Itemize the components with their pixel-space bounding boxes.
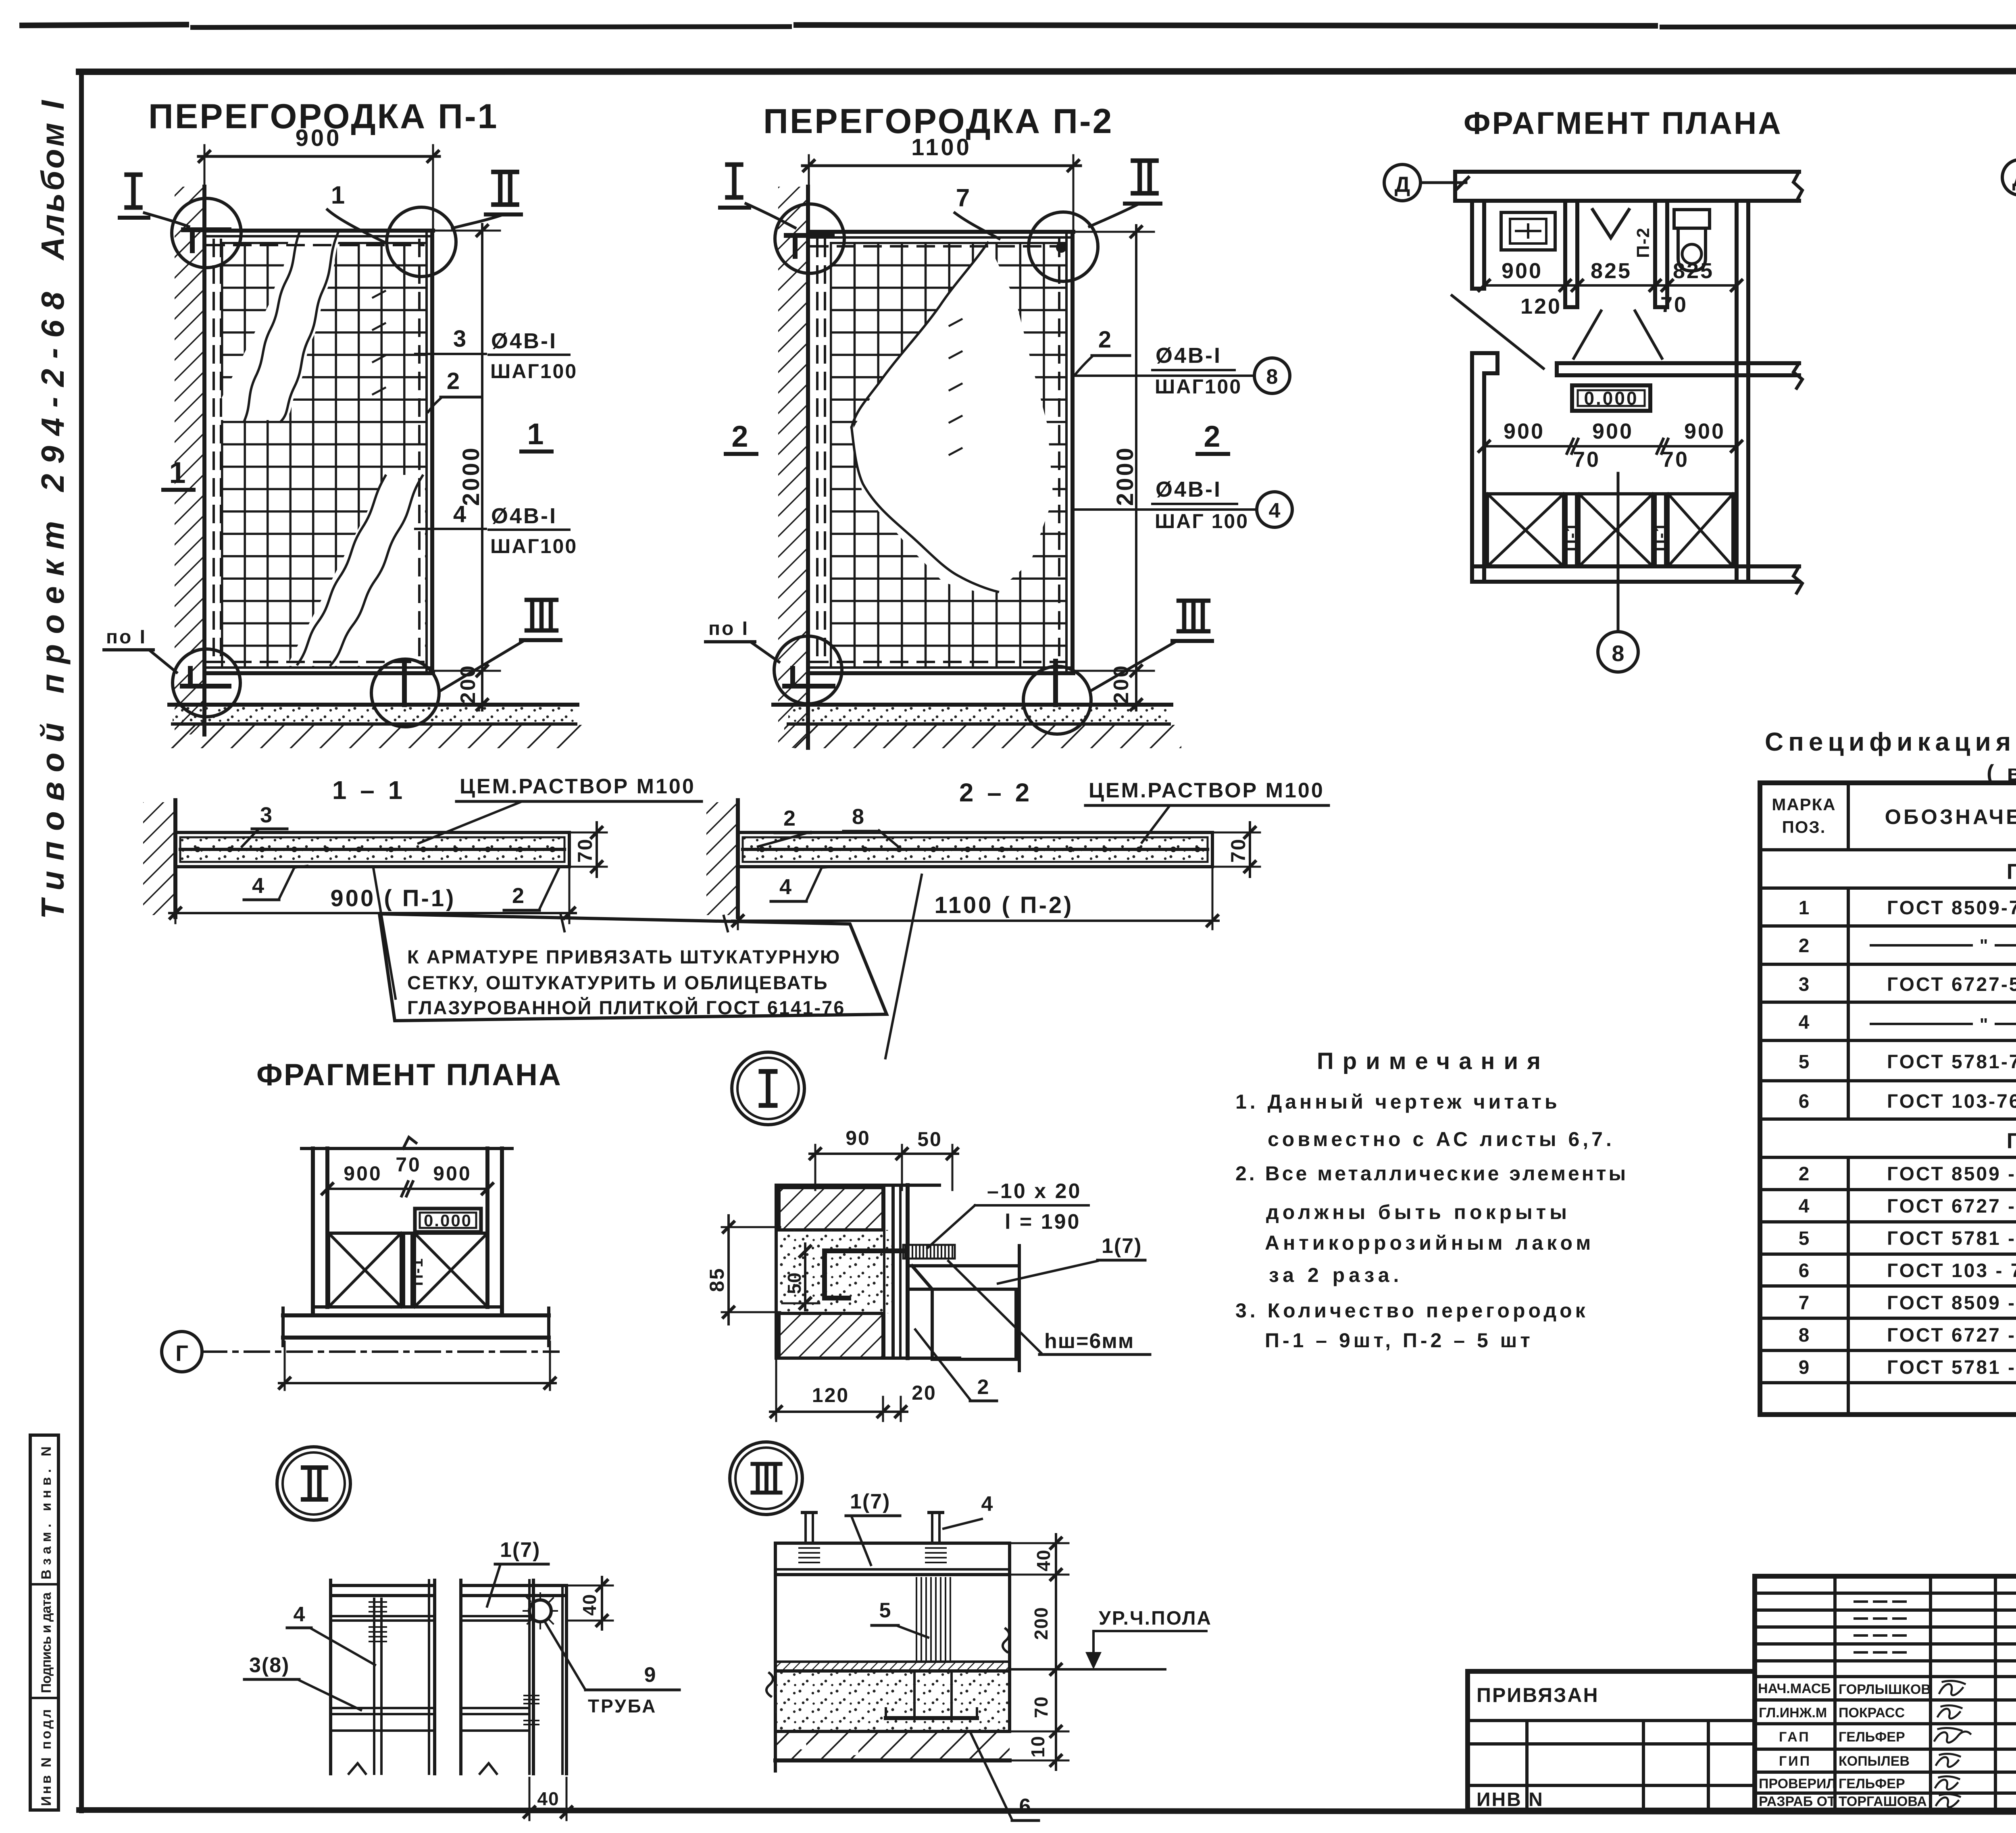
- section 2-2 dim 1100 (P-2): [732, 869, 1218, 929]
- svg-text:900: 900: [296, 125, 342, 151]
- svg-text:Ø4В-I: Ø4В-I: [1156, 343, 1222, 368]
- spec table headers: [1772, 795, 2016, 836]
- P-1 section mark III label: [441, 600, 560, 691]
- svg-text:Ø4В-I: Ø4В-I: [1156, 477, 1222, 501]
- detail I plate label -10x20 l=190: [927, 1180, 1089, 1248]
- P-1 anchor pin bottom: [402, 661, 407, 705]
- svg-text:П-1: П-1: [408, 1258, 426, 1286]
- detail III head circle: [730, 1442, 802, 1515]
- svg-text:1100 ( П-2): 1100 ( П-2): [935, 892, 1074, 918]
- svg-text:1: 1: [1799, 897, 1810, 919]
- svg-text:200: 200: [1031, 1606, 1052, 1640]
- partition P-1 elevation: [104, 97, 585, 748]
- svg-text:": ": [1980, 1015, 1988, 1034]
- detail I bottom dims 120 20: [770, 1361, 937, 1421]
- plan C inner line: [327, 1232, 487, 1235]
- P-1 section mark I label: [120, 175, 189, 227]
- svg-text:l = 190: l = 190: [1005, 1210, 1081, 1234]
- svg-text:ГОРЛЫШКОВ: ГОРЛЫШКОВ: [1839, 1682, 1931, 1697]
- section 2-2 slab: [738, 832, 1212, 867]
- P-2 rebar note with bubble 8: [1074, 343, 1290, 398]
- svg-text:2: 2: [1799, 935, 1810, 957]
- section 1-1 dim 70: [571, 822, 607, 877]
- svg-text:ШАГ100: ШАГ100: [490, 535, 577, 558]
- svg-text:КОПЫЛЕВ: КОПЫЛЕВ: [1839, 1754, 1910, 1769]
- P-1 dim 900 top: [204, 145, 206, 232]
- svg-text:ГОСТ 8509 - 72: ГОСТ 8509 - 72: [1887, 1292, 2016, 1314]
- detail I lower brick: [779, 1313, 883, 1358]
- svg-text:70: 70: [1227, 838, 1250, 863]
- detail II threaded rod: [373, 1599, 375, 1774]
- svg-text:2: 2: [731, 420, 748, 453]
- P-1 detail circle bottom-left: [173, 649, 240, 717]
- P-1 panel bottom edge: [204, 666, 433, 669]
- P-2 panel bottom edge: [808, 666, 1073, 669]
- svg-text:должны быть покрыты: должны быть покрыты: [1266, 1201, 1570, 1223]
- section 1-1 slab: [175, 832, 569, 867]
- svg-text:П-1 – 9шт, П-2 – 5 шт: П-1 – 9шт, П-2 – 5 шт: [1265, 1329, 1533, 1352]
- plan A partition wall 2 (P-2): [1655, 201, 1667, 307]
- svg-text:НАЧ.МАСБ: НАЧ.МАСБ: [1758, 1681, 1831, 1696]
- svg-text:": ": [1980, 936, 1988, 955]
- notes primechaniya: [1235, 1048, 1628, 1352]
- P-1 label 1 leader: [327, 181, 384, 242]
- P-1 big section mark 1 right: [521, 417, 552, 451]
- svg-text:2: 2: [512, 884, 524, 908]
- svg-text:1 – 1: 1 – 1: [332, 776, 406, 805]
- svg-text:1(7): 1(7): [1102, 1234, 1142, 1258]
- svg-text:1100: 1100: [911, 134, 972, 160]
- detail III partition striped band: [914, 1577, 954, 1662]
- detail III label 6: [971, 1733, 1039, 1821]
- svg-text:2: 2: [783, 806, 796, 830]
- svg-text:ГОСТ 5781 - 75: ГОСТ 5781 - 75: [1887, 1357, 2016, 1378]
- svg-text:hш=6мм: hш=6мм: [1044, 1329, 1134, 1353]
- svg-text:5: 5: [1799, 1228, 1810, 1249]
- P-1 section mark II label: [452, 172, 521, 228]
- svg-text:2: 2: [1799, 1163, 1810, 1185]
- P-1 floor line and ground: [169, 703, 577, 707]
- svg-text:3: 3: [1799, 974, 1810, 995]
- detail III bolt left: [799, 1513, 819, 1563]
- detail III right dim chain: [1012, 1534, 1068, 1770]
- svg-text:ГИП: ГИП: [1779, 1754, 1811, 1769]
- plan A door leaf: [1452, 295, 1543, 368]
- svg-text:4: 4: [779, 875, 791, 899]
- detail I anchor Z-bar: [825, 1251, 905, 1298]
- section 2-2 label 8: [843, 805, 899, 847]
- svg-text:90: 90: [846, 1127, 871, 1149]
- svg-text:7: 7: [1799, 1292, 1810, 1314]
- detail II dim 40 right: [569, 1577, 613, 1629]
- svg-text:ТОРГАШОВА: ТОРГАШОВА: [1839, 1794, 1927, 1809]
- plan A axis bubble D: [1384, 164, 1468, 201]
- detail III label 4: [943, 1492, 993, 1529]
- svg-text:85: 85: [706, 1267, 728, 1292]
- P-2 detail circle III bottom-right: [1023, 666, 1091, 734]
- section 2-2 wall hatch: [706, 802, 738, 915]
- svg-text:Ø4В-I: Ø4В-I: [491, 504, 557, 528]
- P-1 corner angle glyph bottom-left: [182, 668, 229, 686]
- svg-text:5: 5: [1799, 1051, 1810, 1073]
- svg-text:ФРАГМЕНТ ПЛАНА: ФРАГМЕНТ ПЛАНА: [1464, 105, 1783, 141]
- plan A cabin row: [1487, 494, 1733, 566]
- svg-text:2 – 2: 2 – 2: [959, 778, 1033, 807]
- title block signature scribbles: [1935, 1681, 1970, 1808]
- P-1 label 2 leader: [428, 368, 480, 412]
- plan C left wall: [313, 1148, 327, 1315]
- svg-text:совместно с АС листы 6,7.: совместно с АС листы 6,7.: [1268, 1128, 1615, 1151]
- P-2 hidden angle dashed lines: [816, 240, 818, 665]
- plan A bottom wall: [1474, 566, 1802, 593]
- plan fragment C title (bottom left): [162, 1058, 562, 1390]
- detail I label 2: [915, 1329, 997, 1401]
- svg-text:70: 70: [1660, 293, 1688, 317]
- plan A left wall lower with pilaster: [1472, 353, 1497, 582]
- left margin vertical text: project name: [35, 99, 71, 919]
- P-1 break tear band upper: [210, 232, 342, 420]
- section 2-2: [706, 778, 1329, 929]
- plan A level mark 0.000: [1572, 385, 1650, 411]
- svg-text:Антикоррозийным лаком: Антикоррозийным лаком: [1265, 1232, 1594, 1254]
- svg-text:825: 825: [1673, 259, 1714, 283]
- section 1-1: [143, 775, 702, 923]
- plan C bottom walls: [283, 1307, 549, 1346]
- P-1 rebar label 4 with note: [415, 501, 577, 558]
- plan C axis bubble G: [162, 1332, 558, 1372]
- section 1-1 label 3: [242, 803, 287, 847]
- svg-text:40: 40: [537, 1788, 559, 1809]
- svg-text:70: 70: [1573, 447, 1600, 472]
- scan artifact top edge line: [22, 25, 2016, 27]
- svg-text:ЦЕМ.РАСТВОР М100: ЦЕМ.РАСТВОР М100: [460, 775, 696, 798]
- svg-text:70: 70: [1031, 1696, 1052, 1718]
- svg-text:900 ( П-1): 900 ( П-1): [331, 885, 456, 911]
- svg-text:ГОСТ 8509-72: ГОСТ 8509-72: [1887, 897, 2016, 919]
- plan B axis bubble D: [2002, 160, 2016, 195]
- P-2 step tick marks: [950, 319, 962, 455]
- P-2 wall hatch: [778, 187, 808, 748]
- svg-text:ПРОВЕРИЛ: ПРОВЕРИЛ: [1759, 1776, 1836, 1791]
- plan A shower V icon: [1593, 210, 1629, 238]
- svg-text:8: 8: [852, 805, 864, 829]
- detail I panel box 3d: [907, 1246, 1019, 1371]
- svg-text:ГОСТ 5781-75: ГОСТ 5781-75: [1887, 1051, 2016, 1073]
- svg-text:900: 900: [1502, 259, 1543, 283]
- section 2-2 dim 70: [1214, 822, 1260, 877]
- detail II right post: [461, 1580, 566, 1774]
- svg-text:1(7): 1(7): [850, 1490, 890, 1513]
- note box plaster mesh: [373, 868, 922, 1058]
- svg-text:20: 20: [912, 1382, 937, 1404]
- svg-text:по I: по I: [708, 618, 749, 639]
- svg-text:3. Количество перегородок: 3. Количество перегородок: [1235, 1299, 1589, 1322]
- svg-text:40: 40: [1033, 1549, 1054, 1571]
- detail II left post: [331, 1580, 435, 1774]
- plan C dim 900 70 900: [322, 1153, 493, 1196]
- detail III floor hatch band: [775, 1662, 1010, 1671]
- svg-text:6: 6: [1019, 1795, 1031, 1818]
- svg-text:ИНВ N: ИНВ N: [1477, 1789, 1544, 1810]
- svg-text:0.000: 0.000: [1584, 388, 1638, 409]
- detail III label 1(7): [846, 1490, 900, 1565]
- section 2-2 label 2: [758, 806, 810, 847]
- svg-text:4: 4: [1269, 499, 1281, 522]
- svg-text:2: 2: [977, 1375, 989, 1399]
- svg-text:ШАГ 100: ШАГ 100: [1155, 510, 1249, 533]
- svg-text:900: 900: [433, 1162, 471, 1185]
- P-2 label 2 leader: [1075, 327, 1130, 375]
- svg-text:900: 900: [1684, 419, 1725, 443]
- P-1 panel top angle: [204, 229, 433, 233]
- svg-text:ГЕЛЬФЕР: ГЕЛЬФЕР: [1839, 1776, 1905, 1791]
- P-2 detail circle bottom-left: [774, 636, 842, 704]
- plan A door swing lines: [1574, 311, 1601, 358]
- P-2 mesh grid: [830, 242, 1066, 668]
- svg-text:4: 4: [981, 1492, 993, 1516]
- detail I label h weld: [948, 1261, 1150, 1354]
- partition P-2 elevation: [706, 102, 1292, 748]
- svg-text:ГОСТ 6727-53: ГОСТ 6727-53: [1887, 974, 2016, 995]
- svg-text:ПРИВЯЗАН: ПРИВЯЗАН: [1477, 1684, 1599, 1706]
- P-1 detail circle I top-left: [172, 198, 241, 268]
- svg-text:2. Все металлические элементы: 2. Все металлические элементы: [1235, 1162, 1628, 1185]
- svg-text:8: 8: [1799, 1325, 1810, 1346]
- detail I dim 50 inner: [782, 1244, 819, 1310]
- P-2 section mark II label: [1089, 161, 1160, 227]
- P-1 detail circle II top-right: [387, 207, 456, 277]
- specification table: [1760, 719, 2016, 1415]
- plan A top wall: [1455, 172, 1802, 201]
- svg-text:8: 8: [1266, 365, 1278, 389]
- detail II head circle: [277, 1447, 350, 1520]
- P-1 step tick marks: [373, 291, 385, 394]
- svg-text:ГАП: ГАП: [1779, 1729, 1810, 1745]
- section 1-1 wall hatch: [143, 802, 175, 915]
- svg-text:1: 1: [527, 417, 544, 451]
- section 1-1 label 4: [244, 866, 307, 900]
- detail II label 9 pipe: [545, 1622, 679, 1716]
- detail I finish layers: [884, 1185, 908, 1358]
- detail I left wall edge: [775, 1185, 778, 1358]
- plan A leader bubble 8: [1598, 473, 1638, 672]
- svg-text:3(8): 3(8): [249, 1654, 289, 1677]
- title block signature grid: [1755, 1576, 2016, 1810]
- svg-text:6: 6: [1799, 1091, 1810, 1112]
- svg-text:2: 2: [1204, 420, 1220, 453]
- svg-text:3: 3: [453, 326, 466, 352]
- svg-text:по I: по I: [106, 626, 147, 648]
- detail II dim 40 bottom: [524, 1778, 572, 1820]
- spec rows P-2: [1799, 1163, 2016, 1378]
- svg-text:ПОКРАСС: ПОКРАСС: [1839, 1705, 1905, 1721]
- plan A washbasin icon: [1501, 212, 1555, 250]
- svg-text:–10 x 20: –10 x 20: [987, 1180, 1081, 1203]
- plan A left wall upper: [1472, 201, 1484, 289]
- svg-text:ГЛАЗУРОВАННОЙ ПЛИТКОЙ ГОСТ 614: ГЛАЗУРОВАННОЙ ПЛИТКОЙ ГОСТ 6141-76: [407, 997, 845, 1018]
- svg-text:Г: Г: [175, 1340, 188, 1366]
- svg-text:МАРКА: МАРКА: [1772, 795, 1836, 814]
- svg-text:4: 4: [1799, 1196, 1810, 1217]
- svg-text:4: 4: [1799, 1012, 1810, 1033]
- plan fragment A (center top): [1384, 105, 1802, 672]
- plan fragment B (top right): [2002, 101, 2016, 571]
- svg-text:ГЛ.ИНЖ.М: ГЛ.ИНЖ.М: [1759, 1705, 1827, 1721]
- detail III foundation band: [775, 1731, 1010, 1760]
- plan C right wall: [487, 1148, 502, 1315]
- spec ditto marks P-1: [1871, 945, 2016, 1024]
- svg-text:2000: 2000: [1112, 446, 1138, 506]
- plan C level mark 0.000: [415, 1209, 481, 1232]
- svg-text:ГОСТ 6727 - 53: ГОСТ 6727 - 53: [1887, 1325, 2016, 1346]
- svg-text:1: 1: [169, 456, 185, 489]
- P-1 hidden angle dashed lines: [212, 240, 215, 665]
- detail III anchor tee: [886, 1671, 977, 1718]
- svg-text:ОБОЗНАЧЕНИЕ: ОБОЗНАЧЕНИЕ: [1885, 805, 2016, 829]
- svg-text:Подпись и дата: Подпись и дата: [39, 1592, 54, 1693]
- svg-text:Инв N подл: Инв N подл: [39, 1709, 54, 1806]
- svg-text:П - 2: П - 2: [2007, 1129, 2016, 1153]
- P-2 big section mark 2 right: [1198, 420, 1228, 454]
- svg-text:ШАГ100: ШАГ100: [1155, 375, 1242, 398]
- svg-text:4: 4: [294, 1603, 305, 1626]
- detail III break squiggles: [766, 1673, 773, 1696]
- svg-text:Д: Д: [1395, 173, 1410, 197]
- svg-text:ГОСТ 103-76: ГОСТ 103-76: [1887, 1091, 2016, 1112]
- P-2 label 7 leader: [955, 184, 999, 239]
- svg-text:2: 2: [1098, 327, 1111, 353]
- svg-text:Д: Д: [2012, 167, 2016, 191]
- detail I weld plate striped: [903, 1245, 955, 1259]
- P-2 detail circle I top-left: [775, 204, 844, 273]
- svg-text:6: 6: [1799, 1260, 1810, 1282]
- svg-text:К АРМАТУРЕ ПРИВЯЗАТЬ ШТУКАТУРН: К АРМАТУРЕ ПРИВЯЗАТЬ ШТУКАТУРНУЮ: [407, 946, 841, 967]
- P-1 detail circle III bottom: [371, 659, 439, 727]
- P-2 anchor pin bottom: [1053, 661, 1058, 705]
- title block signatures text: [1758, 1681, 1931, 1809]
- P-2 corner bolt dot: [1056, 242, 1066, 253]
- P-2 panel top angle: [808, 230, 1073, 234]
- svg-text:8: 8: [1612, 641, 1624, 666]
- P-1 mark po I: [104, 626, 177, 672]
- detail III floor level mark: [1011, 1608, 1212, 1669]
- P-1 wall hatch: [175, 187, 204, 734]
- svg-text:ГОСТ 8509 - 72: ГОСТ 8509 - 72: [1887, 1163, 2016, 1185]
- svg-text:5: 5: [879, 1599, 891, 1622]
- svg-text:70: 70: [574, 838, 596, 863]
- svg-text:0.000: 0.000: [424, 1211, 472, 1230]
- P-2 corner angle glyph bottom-left: [785, 668, 833, 686]
- P-1 mesh grid: [221, 242, 427, 668]
- svg-text:ГОСТ 103 - 76: ГОСТ 103 - 76: [1887, 1260, 2016, 1282]
- detail III bolt right: [926, 1513, 946, 1563]
- P-2 floor line and ground: [773, 703, 1171, 707]
- note box leaders: [373, 868, 396, 999]
- detail I wall top line: [776, 1184, 939, 1187]
- svg-text:7: 7: [956, 184, 970, 212]
- detail II label 4: [287, 1603, 375, 1665]
- svg-text:ГЕЛЬФЕР: ГЕЛЬФЕР: [1839, 1729, 1905, 1745]
- detail III label 5: [872, 1599, 928, 1637]
- svg-text:3: 3: [260, 803, 272, 827]
- detail I head circle: [732, 1052, 804, 1125]
- left margin stamp column: [30, 1435, 58, 1810]
- svg-text:Примечания: Примечания: [1317, 1048, 1549, 1074]
- svg-text:П-1: П-1: [1651, 522, 1670, 551]
- svg-text:50: 50: [784, 1272, 805, 1294]
- svg-text:900: 900: [1592, 419, 1633, 443]
- svg-text:70: 70: [396, 1153, 421, 1176]
- svg-text:ПОЗ.: ПОЗ.: [1782, 818, 1826, 836]
- svg-text:10: 10: [1027, 1735, 1048, 1758]
- svg-text:4: 4: [453, 501, 466, 527]
- P-2 break blank zone: [852, 243, 1053, 596]
- svg-text:УР.Ч.ПОЛА: УР.Ч.ПОЛА: [1099, 1608, 1212, 1629]
- svg-text:1. Данный чертеж читать: 1. Данный чертеж читать: [1235, 1090, 1560, 1113]
- svg-text:9: 9: [1799, 1357, 1810, 1378]
- svg-text:за 2 раза.: за 2 раза.: [1269, 1264, 1403, 1286]
- svg-text:ТРУБА: ТРУБА: [588, 1696, 657, 1716]
- plan A lower dim line 900x3: [1479, 419, 1742, 472]
- section 1-1 dim 900 (P-1): [169, 869, 576, 923]
- spec table grid: [1760, 783, 2016, 1415]
- P-1 panel right angle: [425, 231, 428, 672]
- section 2-2 mortar label: [1085, 779, 1329, 843]
- svg-text:1(7): 1(7): [500, 1538, 540, 1562]
- detail I label 1(7): [998, 1234, 1145, 1284]
- plan A right wall: [1737, 201, 1748, 582]
- plan A toilet icon: [1674, 210, 1710, 271]
- svg-text:2: 2: [447, 368, 460, 394]
- svg-text:1: 1: [331, 181, 345, 209]
- svg-text:П-1: П-1: [1562, 522, 1581, 551]
- svg-text:900: 900: [1504, 419, 1545, 443]
- P-2 mark po I: [706, 618, 779, 662]
- svg-text:ГОСТ 5781 - 75: ГОСТ 5781 - 75: [1887, 1228, 2016, 1249]
- detail I dim 85: [706, 1215, 780, 1324]
- P-1 corner angle glyph top-left: [183, 230, 229, 251]
- P-2 panel right angle: [1065, 232, 1068, 672]
- detail I drawing: [706, 1127, 1150, 1421]
- detail III underlayer speckle: [775, 1672, 1010, 1731]
- detail II label 1(7): [487, 1538, 548, 1606]
- svg-text:П - 1: П - 1: [2007, 859, 2016, 884]
- svg-text:9: 9: [644, 1663, 656, 1687]
- svg-text:4: 4: [252, 874, 264, 898]
- P-2 dim 1100 top: [808, 155, 810, 233]
- P-2 corner angle glyph top-left: [786, 235, 832, 256]
- svg-text:70: 70: [1662, 447, 1689, 472]
- P-1 dim 2000 right: [435, 230, 500, 232]
- svg-text:ФРАГМЕНТ ПЛАНА: ФРАГМЕНТ ПЛАНА: [256, 1058, 562, 1092]
- P-1 rebar label 3 with note: [415, 326, 577, 383]
- svg-text:120: 120: [812, 1384, 849, 1406]
- svg-text:2000: 2000: [458, 446, 484, 506]
- svg-text:ГОСТ 6727 - 53: ГОСТ 6727 - 53: [1887, 1196, 2016, 1217]
- plan C bottom dim: [279, 1342, 556, 1390]
- detail III side borders: [774, 1543, 777, 1771]
- detail III drawing: [766, 1490, 1212, 1821]
- svg-text:120: 120: [1520, 294, 1562, 318]
- plan A upper dim line: [1479, 259, 1742, 318]
- P-2 section mark III label: [1092, 601, 1212, 690]
- svg-text:ШАГ100: ШАГ100: [490, 360, 577, 383]
- P-2 dim 2000 right: [1075, 231, 1154, 233]
- svg-text:40: 40: [579, 1594, 600, 1616]
- detail I bottom wall line: [776, 1357, 960, 1360]
- title block main box: [1755, 1576, 2016, 1810]
- detail II pipe circle welded: [529, 1600, 551, 1622]
